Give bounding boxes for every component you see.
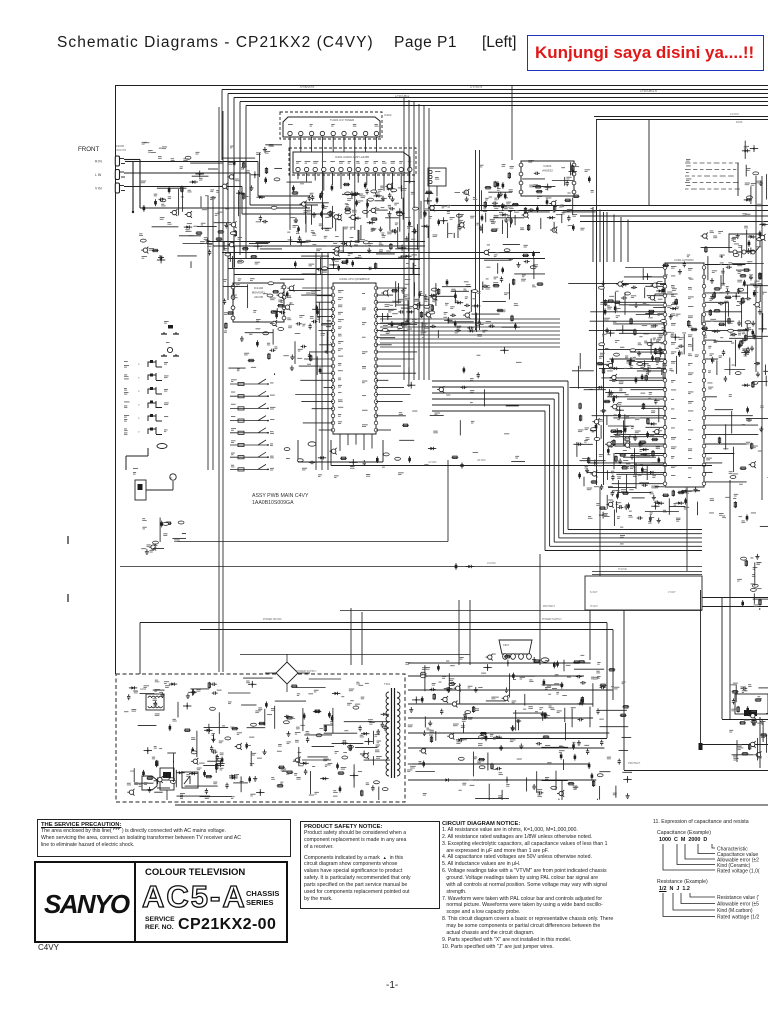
tuner IC302 shielded box — [280, 112, 392, 230]
component cluster: jungle left area — [572, 353, 664, 480]
page title — [57, 34, 374, 52]
top horizontal wire bus — [222, 85, 768, 300]
svg-text:+B VDC: +B VDC — [477, 459, 486, 462]
capacitance example leader lines — [663, 844, 715, 870]
component cluster: below jungle — [596, 484, 700, 523]
svg-text:Resistance value (': Resistance value (' — [717, 895, 759, 901]
circuit diagram notice — [442, 821, 654, 950]
svg-text:Rated voltage (1,0(: Rated voltage (1,0( — [717, 869, 760, 875]
SANYO logo — [44, 889, 128, 920]
svg-text:K1005: K1005 — [116, 144, 125, 148]
vertical wire x590 — [589, 610, 591, 660]
line filter choke L601 — [140, 687, 164, 710]
protect region boundary — [624, 610, 768, 771]
transistor pair Q1002 — [161, 342, 179, 356]
mains input plug — [130, 769, 170, 790]
connector pin list table — [685, 159, 740, 196]
power switch MS01 — [180, 772, 198, 799]
svg-text:POWER SUPPLY: POWER SUPPLY — [296, 669, 317, 673]
svg-text:IC601: IC601 — [543, 164, 551, 168]
secondary output rails — [408, 660, 612, 784]
svg-text:CLOCK: CLOCK — [730, 112, 739, 116]
svg-text:H SYNC B: H SYNC B — [470, 85, 483, 89]
left long verticals to power section — [219, 107, 223, 672]
bridge rectifier D601 — [240, 654, 470, 692]
vertical wire x700 — [699, 590, 768, 750]
component cluster: below audio right — [421, 189, 515, 238]
component cluster: jungle right area — [706, 265, 768, 526]
component cluster: right edge upper — [742, 141, 768, 252]
svg-text:Kind (M.carbon): Kind (M.carbon) — [717, 908, 753, 914]
svg-text:TU101 U/V TUNER: TU101 U/V TUNER — [330, 118, 354, 122]
svg-text:1AA0B10S009GA: 1AA0B10S009GA — [252, 500, 294, 506]
svg-text:o: o — [138, 431, 140, 434]
component cluster: cpu left area — [222, 278, 331, 375]
out wire extensions to right edge — [702, 598, 768, 607]
model label box — [34, 861, 288, 943]
vertical wire x600 — [599, 487, 601, 576]
long wire v-sync — [120, 562, 702, 570]
chassis code — [38, 943, 59, 952]
component cluster: below tuner left — [287, 181, 421, 274]
svg-text:AN5632: AN5632 — [542, 169, 553, 173]
right bottom partial box — [735, 694, 768, 768]
svg-text:o: o — [138, 377, 140, 380]
+9V supply line — [331, 440, 712, 469]
component cluster: mid gap sparse — [399, 347, 525, 465]
svg-text:IC1102: IC1102 — [254, 286, 264, 290]
component cluster: front input circuits — [139, 142, 282, 268]
svg-text:DATA: DATA — [736, 120, 743, 124]
svg-text:R IN: R IN — [95, 160, 102, 164]
component cluster: jungle left lower — [578, 420, 664, 526]
svg-text:H OUT: H OUT — [590, 605, 598, 608]
power supply hot area dashed boundary — [116, 674, 405, 802]
svg-text:24C08: 24C08 — [254, 295, 263, 299]
sync wire pair — [592, 487, 702, 575]
vertical wire x730 — [729, 480, 731, 719]
svg-text:o: o — [138, 404, 140, 407]
transistor pair Q1001 — [161, 321, 179, 334]
IF bus lines to right edge — [430, 206, 768, 486]
svg-text:IC1101 CPU QXXEIBNUP: IC1101 CPU QXXEIBNUP — [339, 277, 369, 281]
svg-text:S OUT: S OUT — [590, 591, 598, 594]
cpu bottom wires — [340, 434, 372, 451]
svg-text:o: o — [138, 363, 140, 366]
svg-text:/S6017B: /S6017B — [116, 148, 126, 152]
component cluster: right bottom edge — [729, 683, 768, 762]
option jumper rows — [230, 379, 276, 471]
svg-text:PROTECT: PROTECT — [543, 605, 555, 608]
component cluster: cpu right area — [381, 279, 520, 339]
audio amp pin components row — [292, 192, 411, 227]
svg-text:K801: K801 — [503, 643, 510, 647]
resistance example leader lines — [663, 893, 715, 917]
left-of-cpu vertical wires — [208, 196, 328, 470]
svg-text:FRONT: FRONT — [78, 146, 100, 153]
svg-text:S/T/B/SCTN: S/T/B/SCTN — [300, 85, 314, 89]
AC5-A chassis name — [142, 879, 247, 915]
front input wires — [124, 160, 330, 215]
component cluster: IF right edge — [643, 254, 768, 376]
component cluster: right mid small — [737, 554, 768, 610]
service precaution box — [37, 819, 291, 857]
front AV input jacks R/L/V — [95, 156, 125, 193]
svg-text:o: o — [138, 417, 140, 420]
power section border lines — [140, 618, 613, 739]
component cluster: top right corner parts — [701, 231, 766, 259]
component cluster: power secondary — [405, 654, 632, 800]
vertical wire x649 — [648, 119, 650, 205]
jungle pin wire rows — [568, 265, 758, 482]
right edge verticals — [756, 176, 762, 500]
audio amp IC201 with shield box — [289, 148, 416, 194]
component cluster: remote sensor — [141, 518, 186, 555]
svg-text:T601: T601 — [384, 682, 391, 686]
cpu pin stub wires — [295, 288, 417, 430]
expression of capacitance notes — [653, 819, 749, 825]
svg-text:L/TROUBLE B: L/TROUBLE B — [640, 89, 657, 93]
schematic bottom line — [175, 804, 768, 806]
mid vertical bus from top — [404, 98, 429, 380]
long wire y610 — [340, 610, 702, 612]
wire pair to right edge — [594, 112, 768, 250]
svg-text:H SYNC: H SYNC — [618, 568, 627, 571]
page number — [386, 980, 398, 991]
registration mark 1 — [67, 536, 69, 544]
svg-text:POWER SUPPLY: POWER SUPPLY — [542, 618, 562, 621]
long horizontal wires upper mid — [207, 242, 545, 275]
schematic outer frame top line — [115, 85, 768, 87]
svg-text:IC302: IC302 — [384, 113, 392, 117]
red banner box — [527, 35, 764, 71]
svg-text:o: o — [138, 390, 140, 393]
schematic outer frame left line — [115, 85, 117, 674]
svg-text:+9 VDC: +9 VDC — [428, 461, 437, 464]
memory IC1102 — [231, 283, 286, 322]
connector K801 — [499, 640, 549, 662]
connector K1D01 — [428, 168, 446, 196]
degauss thermistor block — [160, 768, 174, 800]
svg-text:PROTECT: PROTECT — [628, 761, 641, 765]
signal output rectangle — [543, 576, 702, 610]
cpu-jungle horizontal bus — [380, 319, 560, 347]
svg-text:V IN: V IN — [95, 187, 102, 191]
verticals joining power supply — [351, 554, 540, 665]
svg-text:Allowable error (±5: Allowable error (±5 — [717, 902, 759, 908]
assy label text — [252, 493, 309, 506]
long wire y541 — [177, 460, 448, 542]
svg-text:POWER ON/OFF: POWER ON/OFF — [263, 618, 282, 621]
function switch rows — [124, 360, 169, 470]
svg-text:V OUT: V OUT — [668, 591, 676, 594]
vertical pair x475 — [476, 150, 480, 330]
red banner text — [535, 43, 754, 63]
switching transformer T601 — [384, 682, 400, 778]
component cluster: IF section — [597, 281, 666, 375]
registration mark 2 — [67, 594, 69, 602]
remocon preamp block — [133, 468, 176, 500]
op-amp IC601 — [519, 161, 576, 196]
svg-text:V-SYNC: V-SYNC — [487, 562, 496, 565]
svg-text:L/TROUBLE: L/TROUBLE — [395, 94, 410, 98]
CPU IC1101 — [331, 277, 378, 434]
component cluster: power primary — [124, 678, 390, 800]
IF shield block — [729, 234, 760, 254]
vertical wire x722 — [722, 597, 768, 720]
mid bus L-runs to lower bus — [432, 378, 702, 550]
svg-text:IC201 AUDIO AMP LA4285: IC201 AUDIO AMP LA4285 — [335, 155, 369, 159]
product safety notice box — [300, 821, 440, 909]
svg-text:L IN: L IN — [95, 173, 102, 177]
svg-text:ASSY PWB MAIN C4VY: ASSY PWB MAIN C4VY — [252, 493, 309, 499]
component cluster: mid small section — [482, 245, 545, 291]
component cluster: around op-amp IC601 — [480, 160, 596, 234]
key block below cpu — [284, 440, 411, 478]
svg-text:Rated wattage (1/2: Rated wattage (1/2 — [717, 915, 759, 921]
vertical wire x512 — [511, 85, 513, 160]
jungle IC301 — [609, 258, 706, 487]
